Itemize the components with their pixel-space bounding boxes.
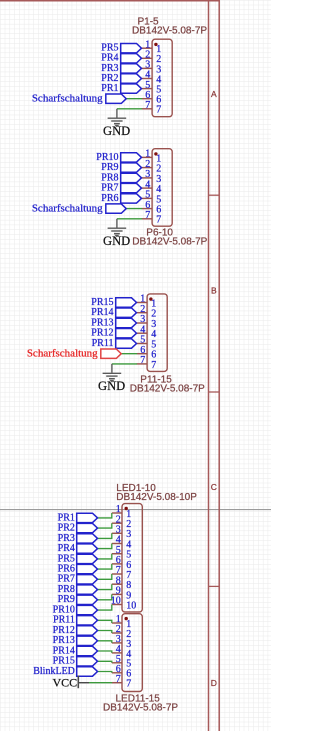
wire PR11 to LED11-15 pin 1 bbox=[97, 620, 112, 623]
ground GND (P11-15) riser bbox=[111, 364, 113, 373]
port PR4 flag bbox=[121, 54, 142, 63]
ground GND (P1-5) bar 2 bbox=[111, 120, 122, 122]
P11-15 pin 4 stub bbox=[137, 332, 147, 334]
ground GND (P6-10) riser bbox=[116, 219, 118, 228]
wire Scharfschaltung port to P6-10 pin 6 bbox=[126, 208, 142, 210]
LED1-10 pin 1 stub bbox=[112, 512, 122, 514]
P6-10 pin 7 stub bbox=[142, 218, 152, 220]
ground GND (P1-5) bar 3 bbox=[114, 123, 120, 125]
svg-text:GND: GND bbox=[98, 379, 125, 393]
wire P11-15 pin 7 to GND bbox=[112, 363, 137, 365]
frame zone tick C/D bbox=[209, 585, 220, 587]
port PR6 flag bbox=[121, 194, 142, 203]
port PR15 flag bbox=[116, 298, 137, 307]
P1-5 pin 1 stub bbox=[142, 47, 152, 49]
connector P11-15 pin-1 marker dot bbox=[149, 297, 152, 300]
LED1-10 pin 6 stub bbox=[112, 563, 122, 565]
wire Scharfschaltung port to P1-5 pin 6 bbox=[126, 98, 142, 100]
P11-15 pin 3 stub bbox=[137, 322, 147, 324]
wire P1-5 pin 7 to GND bbox=[117, 108, 142, 110]
LED1-10 pin 4 stub bbox=[112, 543, 122, 545]
port PR12 flag bbox=[77, 626, 98, 635]
port Scharfschaltung flag bbox=[101, 349, 121, 358]
wire PR13 to LED11-15 pin 3 bbox=[97, 641, 112, 643]
svg-text:7: 7 bbox=[145, 100, 150, 111]
svg-text:C: C bbox=[211, 482, 217, 492]
svg-text:D: D bbox=[211, 678, 217, 688]
LED1-10 pin 5 stub bbox=[112, 553, 122, 555]
wire P6-10 pin 7 to GND bbox=[117, 218, 142, 220]
power port VCC bar bbox=[77, 676, 79, 689]
connector LED1-10 (DB142V-5.08-10P) body bbox=[122, 504, 142, 612]
ground GND (P11-15) tip bbox=[110, 380, 113, 382]
P11-15 pin 5 stub bbox=[137, 343, 147, 345]
ground GND (P11-15) bar 1 bbox=[103, 372, 122, 374]
port BlinkLED flag bbox=[77, 667, 98, 676]
wire PR10 to LED1-10 pin 10 bbox=[97, 605, 112, 611]
port PR8 flag bbox=[121, 173, 142, 182]
port PR10 flag bbox=[121, 153, 142, 162]
wire PR14 to LED11-15 pin 4 bbox=[97, 651, 112, 653]
wire PR15 to LED11-15 pin 5 bbox=[97, 661, 112, 663]
wire PR8 to LED1-10 pin 8 bbox=[97, 584, 112, 589]
port PR10 flag bbox=[77, 605, 98, 614]
frame outer vertical border bbox=[218, 0, 220, 731]
svg-text:DB142V-5.08-7P: DB142V-5.08-7P bbox=[132, 237, 207, 248]
ground GND (P6-10) bar 1 bbox=[108, 227, 127, 229]
wire PR4 to LED1-10 pin 4 bbox=[97, 544, 112, 549]
svg-text:DB142V-5.08-7P: DB142V-5.08-7P bbox=[103, 703, 178, 714]
LED11-15 pin 1 stub bbox=[112, 622, 122, 624]
svg-text:GND: GND bbox=[103, 124, 130, 138]
port PR2 flag bbox=[121, 74, 142, 83]
LED1-10 pin 9 stub bbox=[112, 593, 122, 595]
svg-text:DB142V-5.08-7P: DB142V-5.08-7P bbox=[130, 383, 205, 394]
P1-5 pin 5 stub bbox=[142, 88, 152, 90]
ground GND (P1-5) riser bbox=[116, 109, 118, 118]
svg-text:7: 7 bbox=[156, 105, 161, 116]
LED1-10 pin 7 stub bbox=[112, 573, 122, 575]
wire PR5 to LED1-10 pin 5 bbox=[97, 554, 112, 559]
LED11-15 pin 4 stub bbox=[112, 652, 122, 654]
svg-text:A: A bbox=[211, 89, 217, 99]
svg-text:7: 7 bbox=[126, 679, 131, 690]
P1-5 pin 7 stub bbox=[142, 108, 152, 110]
power port VCC stem bbox=[78, 682, 89, 684]
connector P6-10 pin-1 marker dot bbox=[154, 152, 157, 155]
connector P1-5 (DB142V-5.08-7P) body bbox=[152, 39, 172, 117]
P6-10 pin 2 stub bbox=[142, 167, 152, 169]
port PR12 flag bbox=[116, 329, 137, 338]
frame zone tick B/C bbox=[209, 391, 220, 393]
ground GND (P1-5) bar 1 bbox=[108, 117, 127, 119]
svg-text:7: 7 bbox=[140, 355, 145, 366]
LED1-10 pin 2 stub bbox=[112, 522, 122, 524]
port PR6 flag bbox=[77, 564, 98, 573]
P11-15 pin 7 stub bbox=[137, 363, 147, 365]
svg-text:Scharfschaltung: Scharfschaltung bbox=[32, 203, 103, 215]
P6-10 pin 5 stub bbox=[142, 197, 152, 199]
frame top border bbox=[0, 0, 220, 2]
svg-text:Scharfschaltung: Scharfschaltung bbox=[32, 93, 103, 105]
port PR9 flag bbox=[77, 595, 98, 604]
P1-5 pin 4 stub bbox=[142, 78, 152, 80]
svg-text:10: 10 bbox=[126, 600, 136, 611]
port PR8 flag bbox=[77, 585, 98, 594]
P11-15 pin 1 stub bbox=[137, 302, 147, 304]
port PR9 flag bbox=[121, 163, 142, 172]
frame inner vertical border bbox=[208, 0, 210, 731]
ground GND (P1-5) tip bbox=[115, 125, 118, 127]
LED1-10 pin 3 stub bbox=[112, 532, 122, 534]
ground GND (P6-10) bar 3 bbox=[114, 233, 120, 235]
svg-text:7: 7 bbox=[156, 215, 161, 226]
port PR5 flag bbox=[77, 554, 98, 563]
P1-5 pin 6 stub bbox=[142, 98, 152, 100]
port PR15 flag bbox=[77, 657, 98, 666]
LED11-15 pin 6 stub bbox=[112, 672, 122, 674]
connector P11-15 (DB142V-5.08-7P) body bbox=[147, 294, 167, 372]
port PR2 flag bbox=[77, 523, 98, 532]
ground GND (P11-15) bar 2 bbox=[106, 375, 117, 377]
port PR4 flag bbox=[77, 544, 98, 553]
wire PR12 to LED11-15 pin 2 bbox=[97, 631, 112, 634]
svg-text:Scharfschaltung: Scharfschaltung bbox=[27, 348, 98, 360]
P1-5 pin 2 stub bbox=[142, 57, 152, 59]
LED11-15 pin 3 stub bbox=[112, 642, 122, 644]
connector P1-5 pin-1 marker dot bbox=[154, 43, 157, 46]
port PR13 flag bbox=[77, 636, 98, 645]
ground GND (P11-15) bar 3 bbox=[109, 378, 115, 380]
LED1-10 pin 8 stub bbox=[112, 583, 122, 585]
wire Scharfschaltung port to P11-15 pin 6 bbox=[121, 353, 137, 355]
LED11-15 pin 7 stub bbox=[112, 682, 122, 684]
connector LED1-10 pin-1 marker dot bbox=[125, 507, 128, 510]
P6-10 pin 6 stub bbox=[142, 208, 152, 210]
port PR3 flag bbox=[121, 64, 142, 73]
frame zone tick A/B bbox=[209, 194, 220, 196]
port PR14 flag bbox=[116, 308, 137, 317]
svg-text:7: 7 bbox=[145, 210, 150, 221]
svg-text:B: B bbox=[211, 286, 217, 296]
svg-text:DB142V-5.08-7P: DB142V-5.08-7P bbox=[132, 26, 207, 37]
P6-10 pin 4 stub bbox=[142, 187, 152, 189]
port PR5 flag bbox=[121, 44, 142, 53]
LED1-10 pin 10 stub bbox=[112, 604, 122, 606]
svg-text:DB142V-5.08-10P: DB142V-5.08-10P bbox=[116, 492, 197, 503]
svg-text:GND: GND bbox=[103, 234, 130, 248]
port PR14 flag bbox=[77, 646, 98, 655]
P11-15 pin 2 stub bbox=[137, 312, 147, 314]
wire BlinkLED to LED11-15 pin 6 bbox=[97, 672, 112, 673]
connector P6-10 (DB142V-5.08-7P) body bbox=[152, 149, 172, 227]
port PR1 flag bbox=[77, 513, 98, 522]
ground GND (P6-10) bar 2 bbox=[111, 230, 122, 232]
port Scharfschaltung flag bbox=[106, 94, 126, 103]
wire PR7 to LED1-10 pin 7 bbox=[97, 574, 112, 579]
svg-text:VCC: VCC bbox=[53, 675, 78, 689]
wire VCC to LED11-15 pin 7 bbox=[89, 682, 112, 684]
wire PR2 to LED1-10 pin 2 bbox=[97, 523, 112, 528]
port PR11 flag bbox=[77, 616, 98, 625]
LED11-15 pin 2 stub bbox=[112, 632, 122, 634]
LED11-15 pin 5 stub bbox=[112, 662, 122, 664]
port PR7 flag bbox=[121, 183, 142, 192]
connector LED11-15 pin-1 marker dot bbox=[125, 617, 128, 620]
wire PR3 to LED1-10 pin 3 bbox=[97, 533, 112, 538]
port Scharfschaltung flag bbox=[106, 204, 126, 213]
svg-text:PR6: PR6 bbox=[101, 193, 118, 204]
port PR1 flag bbox=[121, 84, 142, 93]
P6-10 pin 3 stub bbox=[142, 177, 152, 179]
svg-text:7: 7 bbox=[116, 674, 121, 685]
wire PR9 to LED1-10 pin 9 bbox=[97, 594, 112, 599]
port PR3 flag bbox=[77, 534, 98, 543]
port PR13 flag bbox=[116, 318, 137, 327]
svg-text:7: 7 bbox=[151, 360, 156, 371]
P6-10 pin 1 stub bbox=[142, 156, 152, 158]
port PR7 flag bbox=[77, 575, 98, 584]
P11-15 pin 6 stub bbox=[137, 353, 147, 355]
sheet boundary line bbox=[0, 509, 271, 511]
P1-5 pin 3 stub bbox=[142, 67, 152, 69]
svg-text:PR1: PR1 bbox=[101, 83, 118, 94]
connector LED11-15 (DB142V-5.08-7P) body bbox=[122, 614, 142, 692]
wire PR6 to LED1-10 pin 6 bbox=[97, 564, 112, 569]
ground GND (P6-10) tip bbox=[115, 235, 118, 237]
wire PR1 to LED1-10 pin 1 bbox=[97, 513, 112, 518]
port PR11 flag bbox=[116, 339, 137, 348]
